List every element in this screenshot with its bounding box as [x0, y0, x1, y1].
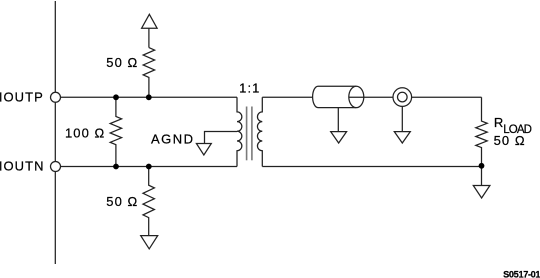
- coax ground stem: [337, 108, 339, 132]
- junction dot IOUTP-100ohm: [113, 94, 119, 100]
- svg-text:100 Ω: 100 Ω: [65, 125, 105, 140]
- resistor 50 Ohm top: [143, 48, 154, 98]
- resistor RLOAD: [476, 97, 487, 185]
- wire center tap to AGND: [205, 132, 238, 144]
- wire IOUTN net: [56, 166, 238, 168]
- resistor 100 Ohm: [110, 97, 121, 166]
- coax cable body: [313, 86, 357, 107]
- svg-text:IOUTN: IOUTN: [0, 159, 45, 174]
- arrow down (bottom termination): [141, 236, 158, 249]
- wire secondary top to coax: [262, 96, 313, 98]
- terminal circle IOUTP: [51, 92, 61, 102]
- coax cable end ellipse: [349, 86, 364, 107]
- svg-text:50 Ω: 50 Ω: [106, 55, 138, 70]
- svg-text:50 Ω: 50 Ω: [106, 194, 138, 209]
- transformer T1 core: [246, 107, 248, 161]
- svg-text:S0517-01: S0517-01: [503, 270, 540, 278]
- transformer T1 primary winding: [237, 97, 242, 166]
- terminal circle IOUTN: [51, 162, 61, 172]
- junction dot IOUTN-50ohm: [146, 164, 152, 170]
- device boundary line: [54, 1, 56, 264]
- connector outer circle: [393, 88, 412, 107]
- transformer T1 secondary winding: [257, 97, 262, 166]
- svg-text:AGND: AGND: [151, 131, 195, 146]
- wire coax to connector to load resistor: [349, 96, 482, 98]
- ground AGND: [196, 144, 211, 156]
- junction dot RLOAD-ground: [479, 163, 485, 169]
- supply stem top: [148, 28, 150, 47]
- connector ground: [394, 132, 410, 143]
- supply arrow up: [142, 14, 158, 28]
- connector inner circle: [398, 92, 408, 102]
- junction dot IOUTN-100ohm: [113, 164, 119, 170]
- coax ground: [331, 132, 347, 143]
- wire secondary bottom to load: [262, 166, 481, 168]
- ground RLOAD: [473, 186, 490, 199]
- connector ground stem: [401, 106, 403, 131]
- svg-text:50 Ω: 50 Ω: [494, 133, 526, 148]
- svg-text:1:1: 1:1: [239, 80, 260, 95]
- svg-text:IOUTP: IOUTP: [0, 89, 44, 104]
- wire IOUTP net: [56, 96, 238, 98]
- junction dot IOUTP-50ohm: [146, 94, 152, 100]
- resistor 50 Ohm bottom: [143, 167, 154, 236]
